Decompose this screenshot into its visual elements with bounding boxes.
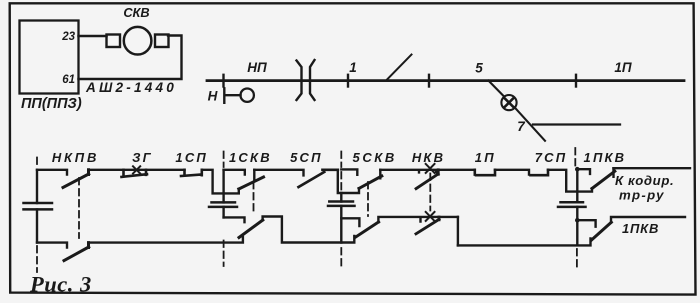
wire top rail G [548,170,592,192]
wire C1 below [222,207,224,218]
contact 5СКВ bottom blade [355,222,378,237]
contact 1ПКВ front tick [612,168,614,177]
svg-text:7СП: 7СП [535,150,568,165]
signal Н mast [224,88,240,103]
bottom rail right [458,239,591,246]
wire C3 below [576,207,578,245]
linkage НКПВ [78,178,80,238]
contact 1СКВ front tick [253,170,255,180]
node dot bottom 1ПКВ [575,218,580,223]
svg-text:ЗГ: ЗГ [132,150,153,165]
wire to coding transformer [614,167,691,169]
contact ЗГ [122,170,148,177]
bottom rail left [37,243,67,248]
bottom rail B [89,237,243,243]
svg-text:СКВ: СКВ [123,5,149,20]
contact НКВ bottom blade [416,217,439,234]
svg-text:1ПКВ: 1ПКВ [622,221,659,236]
svg-text:23: 23 [61,31,75,43]
contact 7СП [531,170,549,175]
track 7 line [533,123,620,125]
node dot top 1ПКВ [575,167,580,172]
insulated joint [297,60,315,100]
svg-text:АШ2-1440: АШ2-1440 [85,80,177,95]
motor СКВ brush right [155,35,169,48]
wire top rail F [495,170,529,175]
contact НКПВ top [63,170,89,188]
contact 1СКВ bottom back terminal [224,217,245,222]
separator dashes C1 [223,152,225,267]
cross mark ЗГ [133,166,140,173]
separator dashes C3 [575,148,577,270]
contact 1СКВ bottom blade [239,220,263,238]
motor СКВ body [124,27,152,55]
svg-text:НП: НП [247,60,267,75]
svg-text:НКПВ: НКПВ [52,150,99,165]
contact НКПВ bottom [64,243,89,261]
svg-text:5: 5 [475,61,483,76]
contact 5СКВ top blade [359,176,382,188]
separator dashes C2 [340,152,342,267]
svg-text:1ПКВ: 1ПКВ [584,150,627,165]
motor СКВ brush left [107,35,121,48]
linkage 1СКВ [253,182,255,215]
wire top rail B [89,169,185,171]
cross mark НКВ bottom [426,212,435,221]
separator dashes left [36,158,38,273]
wire НКВ bottom out [457,217,459,246]
relay box ПП(ППЗ) [20,21,79,94]
switch 5 branch [489,81,546,141]
contact 1СП [181,170,202,176]
svg-text:61: 61 [62,74,75,86]
contact 5СКВ front tick [379,170,381,179]
svg-text:1П: 1П [475,150,496,165]
svg-text:5СП: 5СП [290,150,323,165]
track tick left [222,75,224,87]
wire 1СКВ bottom out [263,217,355,243]
contact 1П [475,170,495,175]
node vertical to C1 [222,170,224,203]
contact 1ПКВ bottom back terminal [577,220,595,227]
switch 1 [386,55,412,81]
contact 1ПКВ top back terminal [577,169,590,174]
contact 5СКВ top back terminal [341,169,357,174]
wire pin 23 to motor [79,35,107,37]
svg-text:тр-ру: тр-ру [619,188,665,203]
svg-text:1СП: 1СП [175,150,208,165]
linkage 5СКВ [367,182,369,216]
contact НКВ top blade [416,170,438,189]
contact 1СКВ top blade [239,177,264,189]
track main line [207,79,684,82]
wire motor to pin 61 [79,36,182,80]
wire top rail D [254,170,303,176]
svg-text:НКВ: НКВ [412,150,445,165]
capacitor C0 [24,203,53,209]
cross mark НКВ top [426,164,435,173]
svg-text:1СКВ: 1СКВ [229,150,272,165]
contact 1СКВ top back terminal [224,170,245,175]
wire C2 vertical [340,193,342,243]
svg-text:Рис. 3: Рис. 3 [29,272,92,297]
contact 1ПКВ top blade [592,171,615,188]
wire top rail A [37,170,67,175]
svg-text:Н: Н [208,89,218,104]
capacitor C1 [209,202,237,207]
svg-text:5СКВ: 5СКВ [352,150,396,165]
capacitor C3 [558,202,586,207]
wire top rail E [380,170,475,173]
lamp [501,95,516,110]
svg-text:1: 1 [349,60,357,75]
svg-text:К кодир.: К кодир. [615,173,674,188]
node vertical to C3 [576,169,578,202]
left node vertical [36,170,38,243]
track tick right [428,75,430,87]
track tick middle [347,75,349,87]
signal Н head [241,89,254,102]
wire 5СКВ bottom out [378,217,458,222]
linkage НКВ [429,174,431,211]
contact 5СКВ bottom back terminal [341,218,359,226]
wire 1ПКВ bottom out [611,217,685,223]
wire 5СП corner [338,170,359,193]
contact 1ПКВ bottom blade [592,222,612,240]
track tick far right [575,75,577,87]
svg-text:ПП(ППЗ): ПП(ППЗ) [21,96,82,112]
contact 5СП [299,170,338,187]
svg-text:1П: 1П [614,60,632,75]
wire top rail C [202,170,239,194]
capacitor C2 [328,202,355,206]
